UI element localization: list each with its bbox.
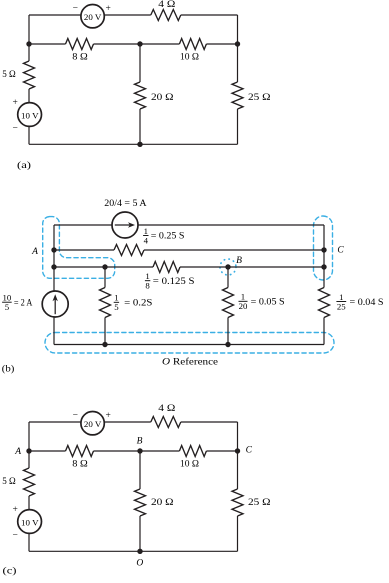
svg-text:+: + [106, 411, 111, 421]
svg-text:A: A [14, 447, 21, 457]
svg-text:(a): (a) [17, 160, 31, 171]
svg-text:= 0.05 S: = 0.05 S [251, 298, 285, 308]
svg-text:1: 1 [144, 226, 148, 236]
svg-text:4 Ω: 4 Ω [158, 0, 175, 10]
svg-text:+: + [13, 505, 18, 515]
svg-text:1: 1 [241, 292, 245, 302]
svg-text:C: C [337, 245, 344, 255]
svg-text:(c): (c) [3, 565, 17, 576]
svg-text:5 Ω: 5 Ω [2, 70, 16, 80]
svg-text:20 Ω: 20 Ω [151, 93, 174, 103]
svg-text:B: B [236, 256, 242, 266]
svg-text:10 V: 10 V [21, 110, 39, 120]
svg-text:8: 8 [145, 281, 150, 291]
svg-text:20: 20 [239, 301, 248, 311]
svg-text:5: 5 [114, 302, 119, 312]
svg-text:B: B [137, 437, 143, 447]
svg-text:5 Ω: 5 Ω [2, 477, 16, 487]
svg-text:20 Ω: 20 Ω [151, 498, 174, 508]
svg-text:10: 10 [3, 293, 12, 303]
svg-text:A: A [31, 247, 38, 257]
svg-text:O Reference: O Reference [162, 357, 218, 368]
svg-text:O: O [136, 558, 143, 568]
svg-text:20/4 = 5 A: 20/4 = 5 A [104, 199, 146, 209]
svg-text:20 V: 20 V [84, 419, 102, 429]
svg-text:+: + [13, 98, 18, 108]
svg-text:10 Ω: 10 Ω [180, 53, 199, 63]
svg-text:−: − [13, 124, 18, 134]
svg-text:8 Ω: 8 Ω [72, 460, 88, 470]
svg-text:1: 1 [145, 271, 149, 281]
svg-text:5: 5 [5, 302, 10, 312]
svg-text:−: − [73, 411, 78, 421]
svg-text:= 0.2S: = 0.2S [124, 299, 152, 309]
svg-text:C: C [246, 446, 253, 456]
svg-text:10 Ω: 10 Ω [180, 460, 199, 470]
svg-text:10 V: 10 V [21, 517, 39, 527]
svg-text:1: 1 [339, 292, 343, 302]
svg-text:20 V: 20 V [84, 12, 102, 22]
svg-text:+: + [106, 4, 111, 14]
svg-text:25: 25 [337, 301, 346, 311]
svg-text:−: − [13, 531, 18, 541]
svg-text:= 0.25 S: = 0.25 S [151, 232, 185, 242]
svg-text:= 2 A: = 2 A [14, 299, 33, 309]
svg-text:−: − [73, 4, 78, 14]
svg-text:= 0.125 S: = 0.125 S [153, 277, 195, 287]
svg-text:25 Ω: 25 Ω [248, 93, 271, 103]
svg-text:(b): (b) [2, 363, 15, 374]
svg-text:= 0.04 S: = 0.04 S [350, 298, 384, 308]
svg-text:1: 1 [114, 293, 118, 303]
svg-text:4 Ω: 4 Ω [158, 404, 175, 414]
svg-text:25 Ω: 25 Ω [248, 498, 271, 508]
svg-text:8 Ω: 8 Ω [72, 53, 88, 63]
svg-text:4: 4 [144, 235, 149, 245]
